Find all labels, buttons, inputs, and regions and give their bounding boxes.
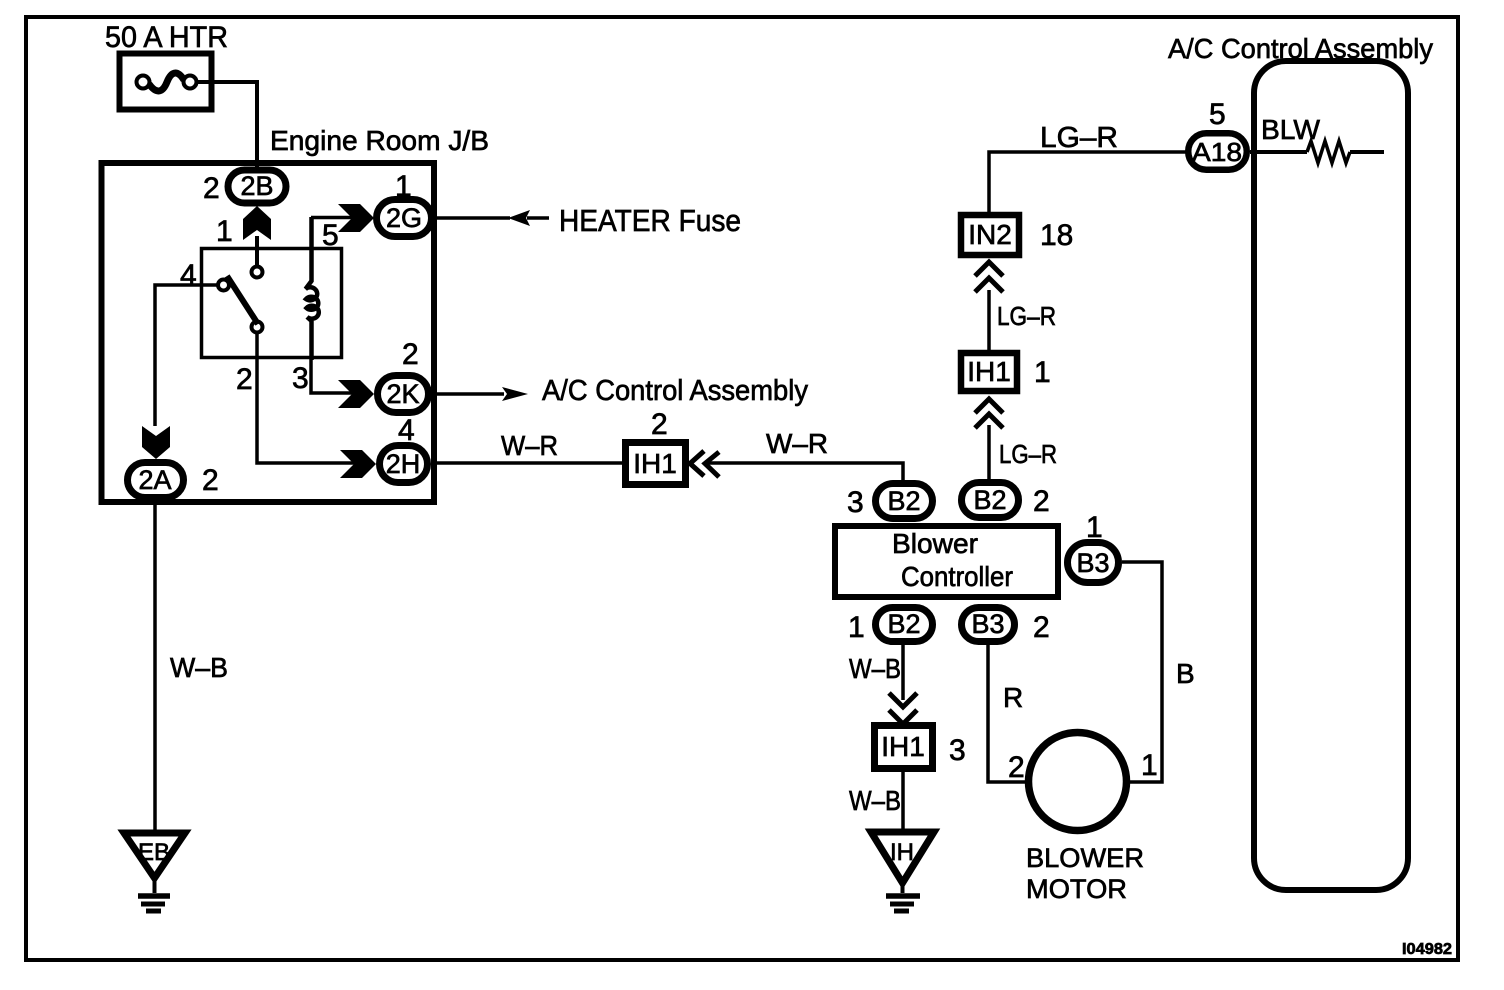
chevrons down into IH1 bbox=[889, 693, 917, 724]
svg-text:W–B: W–B bbox=[849, 785, 901, 816]
connector 2K bbox=[378, 376, 429, 413]
wire 2B to relay contact bbox=[255, 236, 259, 265]
svg-text:W–B: W–B bbox=[849, 653, 901, 684]
wire 2A to EB ground, W-B bbox=[153, 501, 157, 832]
svg-text:IH1: IH1 bbox=[967, 356, 1011, 387]
svg-text:A18: A18 bbox=[1192, 137, 1242, 167]
svg-text:5: 5 bbox=[1209, 98, 1226, 131]
svg-text:1: 1 bbox=[1141, 749, 1158, 782]
svg-text:1: 1 bbox=[1034, 356, 1051, 389]
svg-text:W–R: W–R bbox=[766, 428, 828, 459]
svg-text:IH1: IH1 bbox=[633, 448, 677, 479]
connector B3 pin2 bbox=[962, 608, 1015, 642]
svg-text:LG–R: LG–R bbox=[1040, 122, 1118, 154]
svg-text:2H: 2H bbox=[386, 449, 421, 479]
connector B2 pin1 bbox=[876, 608, 933, 642]
svg-text:BLOWER: BLOWER bbox=[1026, 843, 1144, 873]
wire B3-2 to motor, R bbox=[988, 645, 1028, 782]
svg-text:50 A HTR: 50 A HTR bbox=[105, 21, 228, 54]
connector 2B bbox=[228, 170, 286, 203]
svg-text:Controller: Controller bbox=[901, 561, 1013, 592]
A/C Control Assembly body bbox=[1254, 61, 1408, 890]
wire relay pin4 to 2A bbox=[155, 285, 218, 426]
wire 2H to IH1, W-R bbox=[431, 461, 625, 465]
svg-text:IH: IH bbox=[890, 839, 914, 866]
svg-text:4: 4 bbox=[180, 259, 197, 292]
connector IH1 right bbox=[961, 353, 1017, 391]
svg-text:4: 4 bbox=[398, 414, 415, 447]
svg-text:IH1: IH1 bbox=[881, 731, 925, 762]
svg-text:2: 2 bbox=[402, 338, 419, 371]
ground IH bbox=[871, 832, 934, 911]
arrowhead left HEATER bbox=[508, 210, 530, 226]
blower motor circle bbox=[1029, 733, 1127, 831]
svg-text:2: 2 bbox=[1033, 611, 1050, 644]
svg-text:LG–R: LG–R bbox=[999, 439, 1057, 469]
svg-text:2A: 2A bbox=[138, 465, 171, 495]
svg-text:2: 2 bbox=[1033, 485, 1050, 518]
ground EB bbox=[124, 833, 185, 911]
svg-text:EB: EB bbox=[138, 839, 170, 866]
svg-text:A/C Control Assembly: A/C Control Assembly bbox=[542, 375, 808, 407]
arrow into 2H bbox=[340, 450, 376, 478]
arrow down into 2A bbox=[142, 426, 170, 459]
chevrons up into IH1 right bbox=[975, 399, 1003, 428]
svg-text:B2: B2 bbox=[887, 486, 920, 516]
connector 2H bbox=[380, 446, 428, 483]
svg-text:2: 2 bbox=[236, 363, 253, 396]
svg-text:LG–R: LG–R bbox=[997, 301, 1056, 331]
svg-text:2G: 2G bbox=[386, 203, 422, 233]
arrow into 2G bbox=[338, 204, 374, 232]
svg-text:2K: 2K bbox=[386, 379, 419, 409]
wire IN2 to A18, LG-R bbox=[989, 152, 1188, 212]
chevrons into IH1 bbox=[690, 451, 719, 477]
relay box bbox=[202, 249, 342, 358]
svg-text:B: B bbox=[1176, 658, 1195, 689]
svg-text:3: 3 bbox=[949, 734, 966, 767]
arrow up into 2B bbox=[243, 206, 271, 240]
wire IH1 to IH ground, W-B bbox=[901, 772, 905, 833]
relay switch arm bbox=[227, 276, 258, 324]
svg-text:1: 1 bbox=[395, 170, 412, 203]
arrowhead right A/C bbox=[502, 387, 528, 401]
wire IH1 right to IN2, LG-R bbox=[987, 290, 991, 350]
connector 2G bbox=[377, 200, 432, 237]
arrow tail bbox=[527, 216, 549, 220]
connector IH1 mid bbox=[626, 443, 686, 485]
svg-text:1: 1 bbox=[1086, 511, 1103, 544]
wire fuse to 2B bbox=[196, 82, 257, 168]
blower controller box bbox=[835, 526, 1058, 597]
wire coil to 2G arrow bbox=[311, 216, 354, 220]
svg-text:R: R bbox=[1003, 682, 1023, 713]
svg-text:Blower: Blower bbox=[892, 528, 978, 559]
svg-text:2: 2 bbox=[1008, 751, 1025, 784]
svg-text:W–R: W–R bbox=[501, 430, 558, 461]
connector A18 bbox=[1188, 133, 1247, 170]
svg-text:3: 3 bbox=[292, 362, 309, 395]
connector IN2 bbox=[961, 215, 1019, 255]
connector B2 pin3 bbox=[876, 484, 933, 519]
wire relay pin2 to 2H arrow bbox=[257, 334, 356, 463]
svg-text:HEATER Fuse: HEATER Fuse bbox=[559, 203, 741, 238]
svg-text:2: 2 bbox=[203, 172, 220, 205]
relay coil bbox=[306, 217, 319, 360]
wire relay pin3 to 2K arrow bbox=[311, 360, 354, 393]
svg-text:1: 1 bbox=[848, 611, 865, 644]
svg-text:W–B: W–B bbox=[170, 652, 228, 683]
arrow into 2K bbox=[338, 380, 374, 408]
fuse 50A HTR box bbox=[120, 54, 212, 110]
chevrons up into IN2 bbox=[975, 262, 1003, 292]
svg-text:1: 1 bbox=[216, 215, 233, 248]
connector B2 pin2 bbox=[962, 483, 1019, 518]
svg-text:MOTOR: MOTOR bbox=[1026, 874, 1127, 904]
svg-text:2B: 2B bbox=[240, 171, 273, 201]
wire IH1 to B2, W-R bbox=[706, 463, 903, 482]
svg-text:2: 2 bbox=[651, 408, 668, 441]
wire 2G to HEATER fuse arrow bbox=[435, 216, 510, 220]
svg-text:B3: B3 bbox=[971, 609, 1004, 639]
svg-text:B2: B2 bbox=[887, 609, 920, 639]
blower motor label bbox=[1026, 843, 1144, 904]
svg-text:B3: B3 bbox=[1076, 548, 1109, 578]
wire after resistor bbox=[1350, 150, 1384, 154]
wire A18 to resistor BLW bbox=[1250, 150, 1307, 154]
svg-text:IN2: IN2 bbox=[968, 219, 1012, 250]
svg-text:I04982: I04982 bbox=[1402, 941, 1452, 958]
svg-text:5: 5 bbox=[322, 219, 339, 252]
wire B3-1 to motor, B bbox=[1122, 562, 1162, 782]
svg-text:3: 3 bbox=[847, 486, 864, 519]
connector IH1 bottom bbox=[875, 726, 933, 769]
connector B3 pin1 bbox=[1068, 543, 1119, 583]
svg-text:Engine Room J/B: Engine Room J/B bbox=[270, 125, 489, 156]
wire B2-2 up, LG-R bbox=[987, 425, 991, 479]
Engine Room J/B box bbox=[102, 163, 435, 502]
fuse element symbol bbox=[137, 73, 197, 91]
svg-text:B2: B2 bbox=[973, 485, 1006, 515]
svg-text:18: 18 bbox=[1040, 219, 1073, 252]
connector 2A bbox=[128, 463, 184, 498]
resistor BLW bbox=[1307, 141, 1350, 163]
relay switch contacts bbox=[218, 267, 263, 333]
wire B2-1 down, W-B bbox=[901, 645, 905, 700]
wire 2K to A/C arrow bbox=[432, 392, 504, 396]
svg-text:2: 2 bbox=[202, 464, 219, 497]
